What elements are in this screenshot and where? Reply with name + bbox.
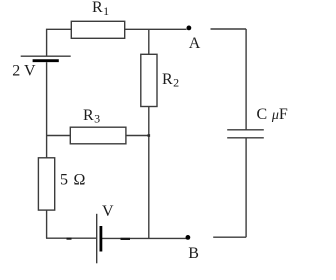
resistor 5ohm bbox=[38, 158, 54, 210]
resistor R3 bbox=[70, 127, 126, 144]
wire joint dash bbox=[67, 238, 72, 240]
wire joint dash bbox=[121, 238, 131, 240]
svg-text:V: V bbox=[102, 203, 114, 220]
wire bbox=[245, 138, 247, 237]
resistor R2 bbox=[141, 54, 157, 106]
svg-text:2 V: 2 V bbox=[12, 62, 36, 79]
wire bbox=[148, 29, 150, 54]
svg-text:R2: R2 bbox=[162, 71, 179, 90]
svg-text:R1: R1 bbox=[92, 0, 109, 18]
junction bbox=[148, 134, 151, 137]
svg-text:R3: R3 bbox=[83, 107, 100, 126]
battery V bbox=[97, 214, 101, 263]
wire bbox=[46, 62, 48, 158]
svg-text:C μF: C μF bbox=[257, 106, 288, 123]
battery 2V bbox=[21, 56, 71, 61]
wire bbox=[46, 210, 48, 238]
resistor R1 bbox=[71, 21, 124, 38]
wire bbox=[46, 237, 96, 239]
wire bbox=[47, 29, 72, 56]
svg-text:B: B bbox=[188, 245, 199, 262]
svg-text:A: A bbox=[189, 35, 201, 52]
wire bbox=[213, 236, 246, 238]
capacitor C bbox=[227, 130, 264, 138]
wire bbox=[125, 28, 187, 30]
wire bbox=[47, 135, 71, 137]
wire bbox=[148, 107, 150, 239]
wire bbox=[245, 29, 247, 130]
wire bbox=[102, 237, 188, 239]
wire bbox=[211, 28, 247, 30]
wire bbox=[126, 135, 149, 137]
svg-text:5 Ω: 5 Ω bbox=[60, 172, 86, 189]
node B bbox=[186, 235, 191, 240]
node A bbox=[187, 26, 192, 31]
